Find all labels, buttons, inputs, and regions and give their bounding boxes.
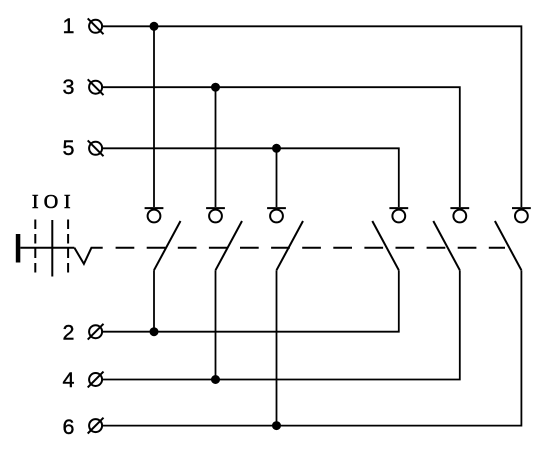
contact 3 <box>267 208 303 270</box>
svg-text:I: I <box>32 191 39 213</box>
wire contact2 top drop <box>215 87 217 207</box>
wire terminal2 to contact4 bottom <box>102 270 398 332</box>
contact 1 <box>145 208 181 270</box>
wire contact3 bottom drop <box>276 270 278 425</box>
contact 6 <box>495 208 531 270</box>
svg-text:5: 5 <box>63 136 75 160</box>
contact 5 <box>433 208 469 270</box>
svg-text:2: 2 <box>63 321 75 345</box>
wire contact3 top drop <box>276 148 278 207</box>
terminal 6 <box>88 418 104 434</box>
position line O (middle, solid) <box>51 220 53 277</box>
terminal 4 <box>88 372 104 388</box>
wire terminal6 to contact6 bottom <box>102 270 521 425</box>
svg-text:O: O <box>44 191 58 213</box>
wire contact1 top drop <box>153 26 155 207</box>
terminal 1 <box>88 18 104 34</box>
wire contact2 bottom drop <box>215 270 217 379</box>
junction dot line3/contact2 <box>211 83 220 92</box>
position line I (left, dashed) <box>34 220 36 278</box>
wire terminal1 to contact6 top <box>102 26 521 207</box>
contact 2 <box>206 208 242 270</box>
wire terminal3 to contact5 top <box>102 87 459 207</box>
actuator shaft <box>20 247 74 249</box>
wire terminal5 to contact4 top <box>102 148 398 207</box>
svg-text:I: I <box>64 191 71 213</box>
svg-text:6: 6 <box>63 415 75 439</box>
wire contact1 bottom drop <box>153 270 155 332</box>
junction dot line2/contact1 <box>150 327 159 336</box>
label I O I <box>32 191 71 213</box>
terminal 2 <box>88 324 104 340</box>
contact 4 <box>372 208 408 270</box>
detent V notch <box>74 248 102 264</box>
svg-text:4: 4 <box>63 368 75 392</box>
junction dot line1/contact1 <box>150 22 159 31</box>
position line I (right, dashed) <box>67 220 69 278</box>
junction dot line5/contact3 <box>272 144 281 153</box>
terminal 3 <box>88 79 104 95</box>
mechanical linkage dashed line <box>116 247 505 249</box>
terminal 5 <box>88 140 104 156</box>
actuator handle bar <box>16 234 20 263</box>
junction dot line6/contact3 <box>272 421 281 430</box>
wire terminal4 to contact5 bottom <box>102 270 459 379</box>
svg-text:3: 3 <box>63 75 75 99</box>
junction dot line4/contact2 <box>211 375 220 384</box>
svg-text:1: 1 <box>63 14 75 38</box>
